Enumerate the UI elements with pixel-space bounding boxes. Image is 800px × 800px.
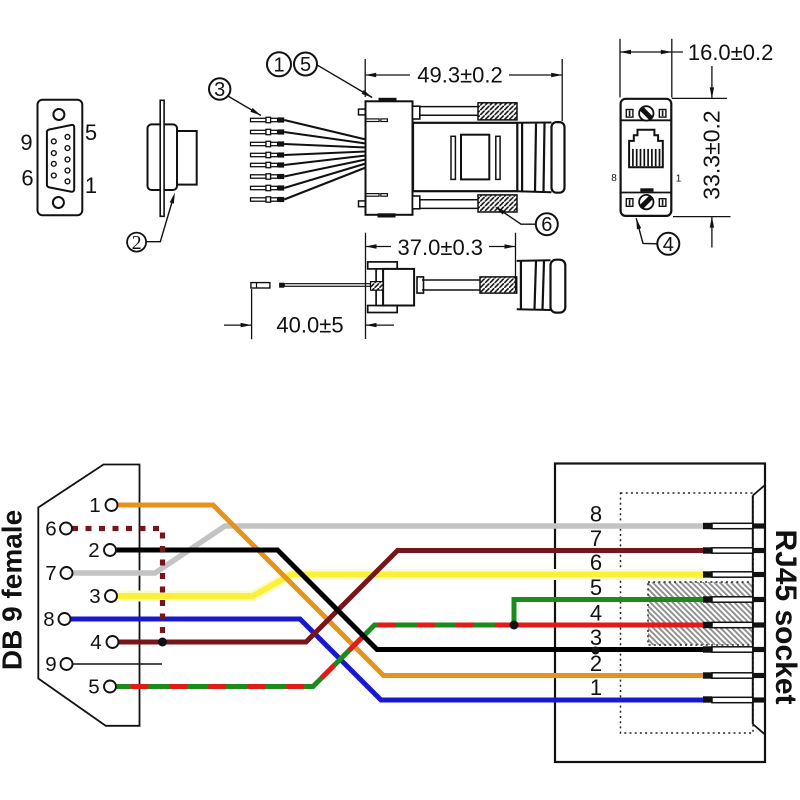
svg-text:4: 4 [663, 234, 674, 256]
svg-text:6: 6 [21, 165, 33, 190]
svg-text:6: 6 [590, 550, 602, 575]
svg-text:6: 6 [541, 214, 552, 236]
svg-text:1: 1 [89, 494, 100, 517]
svg-text:1: 1 [273, 54, 284, 76]
svg-text:1: 1 [676, 174, 682, 185]
svg-text:16.0±0.2: 16.0±0.2 [688, 40, 773, 65]
svg-text:8: 8 [611, 173, 617, 184]
svg-text:33.3±0.2: 33.3±0.2 [699, 110, 725, 199]
svg-text:6: 6 [45, 518, 56, 541]
svg-text:8: 8 [43, 608, 54, 631]
svg-text:3: 3 [89, 585, 100, 608]
svg-text:2: 2 [590, 651, 602, 676]
svg-text:1: 1 [85, 173, 97, 198]
svg-text:3: 3 [214, 79, 225, 101]
svg-text:RJ45 socket: RJ45 socket [769, 529, 800, 704]
svg-text:5: 5 [88, 676, 99, 699]
svg-text:7: 7 [590, 526, 602, 551]
svg-text:8: 8 [590, 502, 602, 527]
svg-text:5: 5 [590, 575, 602, 600]
svg-text:4: 4 [90, 631, 101, 654]
svg-text:40.0±5: 40.0±5 [276, 313, 343, 338]
svg-text:2: 2 [88, 539, 99, 562]
svg-text:7: 7 [45, 562, 56, 585]
svg-text:9: 9 [45, 653, 56, 676]
svg-text:5: 5 [85, 120, 97, 145]
svg-text:1: 1 [590, 675, 602, 700]
svg-text:3: 3 [590, 625, 602, 650]
svg-text:49.3±0.2: 49.3±0.2 [417, 63, 502, 88]
svg-text:9: 9 [20, 130, 32, 155]
svg-text:5: 5 [300, 54, 311, 76]
svg-text:37.0±0.3: 37.0±0.3 [398, 235, 483, 260]
svg-text:DB 9 female: DB 9 female [0, 510, 27, 670]
svg-text:2: 2 [132, 232, 142, 254]
svg-text:4: 4 [590, 601, 602, 626]
